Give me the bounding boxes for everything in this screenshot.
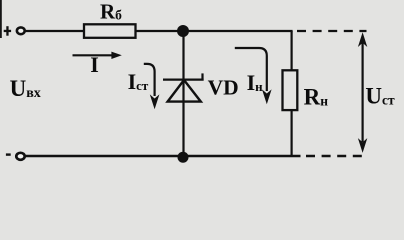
input terminal top (circle) [17, 27, 25, 34]
wire: top rail left segment [26, 30, 84, 32]
resistor Rn (load) [283, 70, 298, 110]
wire: bottom rail [26, 155, 301, 157]
svg-text:I: I [90, 52, 99, 77]
wire: load branch upper [291, 31, 293, 71]
current arrow In (curved, down into load) [235, 48, 272, 104]
plus polarity mark [4, 26, 11, 36]
current arrow Ist (curved, down through zener) [144, 64, 160, 109]
zener diode VD (anode triangle) [168, 80, 201, 102]
wire: zener branch vertical [182, 31, 184, 156]
wire: load branch lower [291, 110, 293, 156]
current arrow I [73, 52, 122, 59]
dashed wire bottom [306, 155, 362, 157]
dashed wire top [297, 30, 367, 32]
node: bottom junction dot [178, 152, 189, 163]
svg-text:VD: VD [208, 76, 239, 100]
left edge border bar [0, 0, 2, 38]
resistor R6 (ballast) [84, 24, 136, 38]
input terminal bottom (circle) [16, 153, 24, 160]
wire: top rail middle segment [136, 30, 293, 32]
node: top junction dot [177, 25, 189, 37]
minus polarity mark [6, 153, 11, 155]
dimension arrow Ust (double headed) [358, 32, 367, 153]
zener diode VD (cathode bar with hook) [163, 73, 204, 80]
